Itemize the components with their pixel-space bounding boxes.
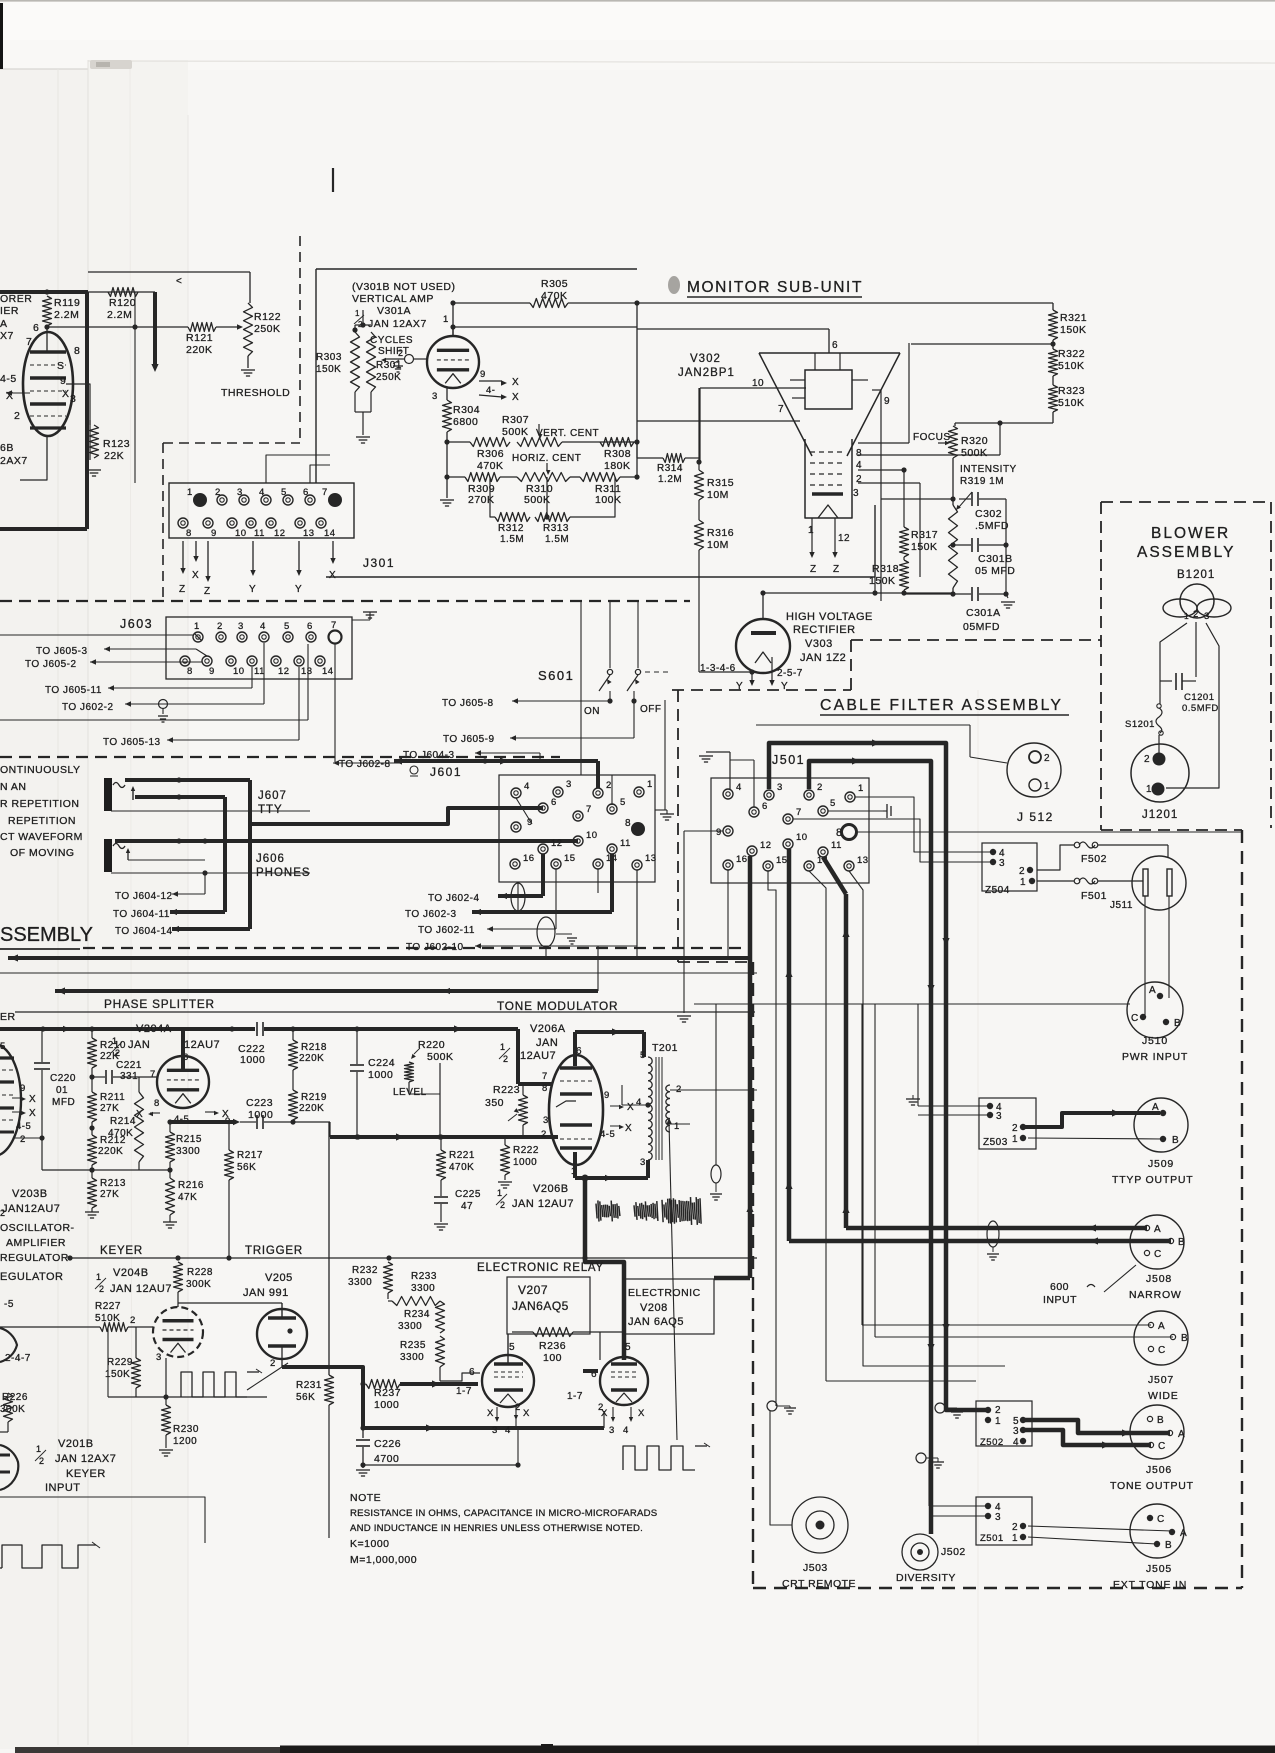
svg-text:12: 12 bbox=[838, 533, 850, 544]
svg-text:R211: R211 bbox=[100, 1092, 125, 1103]
svg-text:470K: 470K bbox=[449, 1162, 474, 1173]
svg-text:1: 1 bbox=[858, 783, 864, 794]
svg-text:470K: 470K bbox=[477, 460, 504, 472]
svg-text:510K: 510K bbox=[1058, 360, 1085, 372]
svg-text:8: 8 bbox=[856, 448, 862, 459]
svg-text:2: 2 bbox=[20, 1134, 26, 1145]
svg-text:9: 9 bbox=[211, 528, 217, 539]
svg-text:INPUT: INPUT bbox=[1043, 1294, 1077, 1306]
svg-text:ONTINUOUSLY: ONTINUOUSLY bbox=[0, 764, 81, 776]
svg-text:56K: 56K bbox=[237, 1162, 256, 1173]
svg-text:7: 7 bbox=[26, 336, 32, 348]
svg-text:R229: R229 bbox=[107, 1357, 133, 1368]
svg-text:RESISTANCE IN OHMS, CAPACITANC: RESISTANCE IN OHMS, CAPACITANCE IN MICRO… bbox=[350, 1508, 657, 1519]
svg-text:150K: 150K bbox=[911, 541, 938, 553]
svg-text:1: 1 bbox=[647, 779, 653, 790]
svg-text:M=1,000,000: M=1,000,000 bbox=[350, 1554, 417, 1566]
svg-text:3: 3 bbox=[640, 1157, 646, 1168]
svg-text:3: 3 bbox=[238, 621, 244, 632]
svg-text:2: 2 bbox=[817, 782, 823, 793]
svg-text:9: 9 bbox=[209, 666, 215, 677]
svg-text:TO J602-11: TO J602-11 bbox=[418, 925, 475, 936]
svg-text:4: 4 bbox=[636, 1097, 642, 1108]
svg-text:C224: C224 bbox=[368, 1057, 395, 1069]
svg-text:NOTE: NOTE bbox=[350, 1492, 381, 1504]
svg-text:10: 10 bbox=[586, 830, 598, 841]
svg-text:7: 7 bbox=[322, 487, 328, 498]
svg-text:9: 9 bbox=[60, 375, 66, 387]
svg-text:500K: 500K bbox=[502, 426, 529, 438]
svg-text:R216: R216 bbox=[178, 1180, 204, 1191]
svg-text:TO J602-4: TO J602-4 bbox=[428, 893, 480, 904]
svg-text:B: B bbox=[1174, 1018, 1181, 1029]
svg-text:HORIZ. CENT: HORIZ. CENT bbox=[512, 453, 581, 464]
svg-text:B: B bbox=[1181, 1333, 1188, 1344]
svg-text:J 512: J 512 bbox=[1017, 810, 1054, 824]
svg-text:Y: Y bbox=[295, 584, 302, 595]
svg-text:1: 1 bbox=[995, 1416, 1001, 1427]
svg-text:C225: C225 bbox=[455, 1189, 481, 1200]
svg-text:ORER: ORER bbox=[0, 293, 32, 305]
svg-text:15: 15 bbox=[776, 855, 788, 866]
svg-text:2: 2 bbox=[130, 1315, 136, 1326]
svg-text:TO J605-11: TO J605-11 bbox=[45, 685, 102, 696]
svg-text:B1201: B1201 bbox=[1177, 569, 1215, 581]
svg-text:1: 1 bbox=[500, 1042, 506, 1052]
svg-text:350: 350 bbox=[485, 1097, 504, 1109]
svg-text:R307: R307 bbox=[502, 414, 529, 426]
svg-text:.5MFD: .5MFD bbox=[975, 520, 1009, 532]
svg-text:4-5: 4-5 bbox=[16, 1121, 31, 1132]
svg-text:J502: J502 bbox=[941, 1546, 966, 1558]
svg-text:12: 12 bbox=[278, 666, 290, 677]
svg-text:1.2M: 1.2M bbox=[658, 474, 682, 485]
svg-text:4-5: 4-5 bbox=[600, 1129, 615, 1140]
svg-text:V206A: V206A bbox=[530, 1023, 566, 1035]
svg-text:R303: R303 bbox=[316, 352, 342, 363]
svg-text:2: 2 bbox=[1193, 609, 1199, 620]
svg-text:3: 3 bbox=[237, 487, 243, 498]
svg-text:TO J605-13: TO J605-13 bbox=[103, 737, 161, 748]
svg-text:C226: C226 bbox=[374, 1438, 401, 1450]
svg-text:Z503: Z503 bbox=[983, 1137, 1008, 1148]
svg-text:(V301B NOT USED): (V301B NOT USED) bbox=[352, 281, 456, 293]
svg-text:1: 1 bbox=[674, 1121, 680, 1132]
svg-text:8: 8 bbox=[542, 1083, 548, 1094]
svg-text:47: 47 bbox=[461, 1201, 473, 1212]
svg-text:1: 1 bbox=[187, 487, 193, 498]
svg-text:3: 3 bbox=[609, 1425, 615, 1436]
svg-text:331: 331 bbox=[120, 1071, 138, 1082]
svg-text:7: 7 bbox=[586, 804, 592, 815]
svg-text:12: 12 bbox=[274, 528, 286, 539]
svg-text:C221: C221 bbox=[116, 1060, 142, 1071]
svg-text:LEVEL: LEVEL bbox=[393, 1087, 427, 1098]
svg-text:B: B bbox=[1157, 1415, 1164, 1426]
svg-text:R317: R317 bbox=[911, 529, 938, 541]
svg-text:WIDE: WIDE bbox=[1148, 1390, 1179, 1402]
svg-text:300K: 300K bbox=[186, 1279, 211, 1290]
svg-text:4: 4 bbox=[1013, 1437, 1019, 1448]
svg-text:C302: C302 bbox=[975, 508, 1002, 520]
svg-text:TO J602-3: TO J602-3 bbox=[405, 909, 457, 920]
svg-text:Z: Z bbox=[179, 584, 186, 595]
svg-text:6: 6 bbox=[551, 797, 557, 808]
svg-text:R320: R320 bbox=[961, 435, 988, 447]
svg-text:V204B: V204B bbox=[113, 1267, 149, 1279]
svg-text:-5: -5 bbox=[4, 1299, 14, 1310]
svg-text:R318: R318 bbox=[872, 563, 899, 575]
svg-text:2: 2 bbox=[215, 487, 221, 498]
svg-text:8: 8 bbox=[186, 528, 192, 539]
svg-text:V201B: V201B bbox=[58, 1438, 94, 1450]
svg-text:10: 10 bbox=[233, 666, 245, 677]
svg-text:3: 3 bbox=[853, 488, 859, 499]
svg-text:8: 8 bbox=[74, 345, 80, 357]
svg-text:PHASE SPLITTER: PHASE SPLITTER bbox=[104, 997, 215, 1011]
svg-text:1.5M: 1.5M bbox=[545, 534, 569, 545]
svg-text:X: X bbox=[29, 1108, 36, 1119]
svg-text:1: 1 bbox=[1020, 877, 1026, 888]
svg-text:27K: 27K bbox=[100, 1103, 119, 1114]
svg-text:14: 14 bbox=[322, 666, 334, 677]
svg-text:EGULATOR: EGULATOR bbox=[0, 1271, 64, 1283]
svg-text:B: B bbox=[1178, 1237, 1185, 1248]
svg-text:16: 16 bbox=[736, 854, 748, 865]
svg-text:R316: R316 bbox=[707, 527, 734, 539]
svg-text:47K: 47K bbox=[178, 1192, 197, 1203]
svg-text:11: 11 bbox=[254, 666, 265, 677]
svg-text:KEYER: KEYER bbox=[100, 1245, 143, 1257]
svg-text:1: 1 bbox=[443, 314, 449, 325]
svg-text:JAN 991: JAN 991 bbox=[243, 1287, 289, 1299]
svg-text:6: 6 bbox=[762, 801, 768, 812]
svg-text:C223: C223 bbox=[246, 1097, 273, 1109]
svg-text:470K: 470K bbox=[541, 290, 568, 302]
svg-text:4: 4 bbox=[505, 1425, 511, 1436]
svg-text:V204A: V204A bbox=[136, 1023, 172, 1035]
svg-text:R222: R222 bbox=[513, 1145, 539, 1156]
svg-text:150K: 150K bbox=[869, 575, 896, 587]
svg-text:V207: V207 bbox=[518, 1283, 548, 1297]
svg-text:11: 11 bbox=[254, 528, 265, 539]
svg-text:4-: 4- bbox=[486, 385, 495, 396]
svg-text:500K: 500K bbox=[961, 447, 988, 459]
svg-text:B: B bbox=[1172, 1135, 1179, 1146]
svg-text:OFF: OFF bbox=[640, 704, 662, 715]
svg-text:2: 2 bbox=[541, 1129, 547, 1140]
svg-text:EXT TONE IN: EXT TONE IN bbox=[1113, 1579, 1187, 1591]
svg-text:R214: R214 bbox=[110, 1116, 136, 1127]
svg-text:12AU7: 12AU7 bbox=[520, 1050, 556, 1062]
svg-text:A: A bbox=[1149, 985, 1156, 996]
svg-text:220K: 220K bbox=[299, 1103, 324, 1114]
svg-text:R232: R232 bbox=[352, 1265, 378, 1276]
svg-text:1.5M: 1.5M bbox=[500, 534, 524, 545]
svg-text:JAN 12AX7: JAN 12AX7 bbox=[368, 318, 427, 330]
svg-text:Z: Z bbox=[833, 564, 840, 575]
svg-text:27K: 27K bbox=[100, 1189, 119, 1200]
svg-text:TO J605-8: TO J605-8 bbox=[442, 698, 494, 709]
svg-text:R122: R122 bbox=[254, 311, 281, 323]
svg-text:X: X bbox=[523, 1408, 530, 1419]
svg-text:1: 1 bbox=[1012, 1533, 1018, 1544]
svg-text:4: 4 bbox=[524, 781, 530, 792]
svg-text:V301A: V301A bbox=[377, 305, 411, 317]
svg-text:2: 2 bbox=[503, 1054, 509, 1064]
svg-text:15: 15 bbox=[564, 853, 576, 864]
svg-text:X: X bbox=[329, 570, 336, 581]
svg-text:INPUT: INPUT bbox=[45, 1482, 81, 1494]
svg-text:510K: 510K bbox=[1058, 397, 1085, 409]
svg-text:MFD: MFD bbox=[52, 1097, 75, 1108]
svg-text:TO J605-2: TO J605-2 bbox=[25, 659, 77, 670]
svg-text:9: 9 bbox=[20, 1083, 26, 1094]
svg-text:3300: 3300 bbox=[400, 1352, 424, 1363]
svg-text:C: C bbox=[1154, 1249, 1162, 1260]
svg-text:J601: J601 bbox=[430, 765, 462, 779]
svg-text:R233: R233 bbox=[411, 1271, 437, 1282]
svg-text:3: 3 bbox=[1013, 1426, 1019, 1437]
svg-text:AND INDUCTANCE IN HENRIES UNLE: AND INDUCTANCE IN HENRIES UNLESS OTHERWI… bbox=[350, 1523, 643, 1534]
svg-text:9: 9 bbox=[604, 1090, 610, 1101]
svg-text:5: 5 bbox=[281, 487, 287, 498]
svg-text:1: 1 bbox=[1012, 1134, 1018, 1145]
svg-text:9: 9 bbox=[527, 817, 533, 828]
svg-text:7: 7 bbox=[778, 404, 784, 415]
svg-text:R215: R215 bbox=[176, 1134, 202, 1145]
svg-text:CT WAVEFORM: CT WAVEFORM bbox=[0, 831, 83, 843]
svg-text:J501: J501 bbox=[772, 753, 805, 767]
svg-text:11: 11 bbox=[620, 838, 631, 849]
svg-text:JAN 12AX7: JAN 12AX7 bbox=[55, 1453, 116, 1465]
svg-text:13: 13 bbox=[301, 666, 313, 677]
svg-text:R223: R223 bbox=[493, 1084, 520, 1096]
svg-text:R234: R234 bbox=[404, 1309, 430, 1320]
svg-text:X: X bbox=[62, 388, 70, 400]
svg-text:CRT REMOTE: CRT REMOTE bbox=[782, 1578, 856, 1590]
svg-text:150K: 150K bbox=[105, 1369, 130, 1380]
svg-text:VERT. CENT: VERT. CENT bbox=[536, 428, 599, 439]
svg-text:TO J604-11: TO J604-11 bbox=[113, 909, 170, 920]
svg-text:56K: 56K bbox=[296, 1392, 315, 1403]
svg-text:R119: R119 bbox=[54, 297, 80, 309]
svg-text:10M: 10M bbox=[707, 539, 729, 551]
svg-text:250K: 250K bbox=[254, 323, 281, 335]
svg-text:R227: R227 bbox=[95, 1301, 121, 1312]
svg-text:1-7: 1-7 bbox=[567, 1391, 583, 1402]
svg-text:4: 4 bbox=[856, 460, 862, 471]
svg-text:ASSEMBLY: ASSEMBLY bbox=[1137, 544, 1235, 561]
svg-text:220K: 220K bbox=[98, 1146, 123, 1157]
svg-text:22K: 22K bbox=[104, 450, 124, 462]
svg-text:Z502: Z502 bbox=[980, 1437, 1004, 1448]
svg-text:R220: R220 bbox=[418, 1039, 445, 1051]
svg-text:R REPETITION: R REPETITION bbox=[0, 798, 80, 810]
svg-text:16: 16 bbox=[523, 853, 535, 864]
svg-text:JAN: JAN bbox=[536, 1037, 558, 1049]
svg-text:4-5: 4-5 bbox=[0, 373, 17, 385]
svg-text:Y: Y bbox=[249, 584, 256, 595]
svg-text:1000: 1000 bbox=[513, 1157, 537, 1168]
svg-text:4: 4 bbox=[736, 782, 742, 793]
svg-text:X: X bbox=[512, 377, 519, 388]
svg-text:500K: 500K bbox=[427, 1051, 454, 1063]
svg-text:JAN: JAN bbox=[128, 1039, 150, 1051]
svg-text:J503: J503 bbox=[803, 1562, 828, 1574]
svg-text:S1201: S1201 bbox=[1125, 719, 1155, 730]
svg-text:13: 13 bbox=[857, 855, 869, 866]
svg-text:1: 1 bbox=[96, 1272, 102, 1282]
svg-text:5: 5 bbox=[625, 1342, 631, 1353]
svg-text:DIVERSITY: DIVERSITY bbox=[896, 1572, 956, 1584]
svg-text:10M: 10M bbox=[707, 489, 729, 501]
svg-text:RECTIFIER: RECTIFIER bbox=[793, 624, 856, 636]
svg-text:R236: R236 bbox=[539, 1340, 566, 1352]
svg-text:8: 8 bbox=[154, 1098, 160, 1109]
svg-text:5: 5 bbox=[284, 621, 290, 632]
svg-text:6: 6 bbox=[832, 340, 838, 351]
svg-text:TTY: TTY bbox=[258, 804, 283, 816]
svg-text:R304: R304 bbox=[453, 404, 480, 416]
svg-text:J510: J510 bbox=[1142, 1035, 1168, 1047]
svg-text:N AN: N AN bbox=[0, 781, 27, 793]
svg-text:R235: R235 bbox=[400, 1340, 426, 1351]
svg-text:BLOWER: BLOWER bbox=[1151, 525, 1230, 542]
svg-text:R121: R121 bbox=[186, 332, 213, 344]
svg-text:510K: 510K bbox=[95, 1313, 120, 1324]
svg-text:R231: R231 bbox=[296, 1380, 322, 1391]
svg-text:J603: J603 bbox=[120, 617, 153, 631]
svg-text:01: 01 bbox=[56, 1085, 68, 1096]
svg-text:J1201: J1201 bbox=[1142, 809, 1178, 821]
svg-text:V206B: V206B bbox=[533, 1183, 569, 1195]
svg-text:100K: 100K bbox=[595, 494, 622, 506]
svg-text:A: A bbox=[1180, 1528, 1187, 1539]
svg-text:3: 3 bbox=[156, 1352, 162, 1363]
svg-text:C301A: C301A bbox=[966, 607, 1001, 619]
svg-text:100: 100 bbox=[543, 1352, 562, 1364]
svg-text:OF MOVING: OF MOVING bbox=[10, 847, 75, 859]
svg-text:1: 1 bbox=[808, 525, 814, 536]
svg-text:MONITOR SUB-UNIT: MONITOR SUB-UNIT bbox=[687, 279, 863, 296]
svg-text:3: 3 bbox=[995, 1512, 1001, 1523]
svg-text:0.5MFD: 0.5MFD bbox=[1182, 703, 1219, 714]
svg-text:AMPLIFIER: AMPLIFIER bbox=[6, 1237, 66, 1249]
svg-text:TO J602-8: TO J602-8 bbox=[339, 759, 391, 770]
svg-text:R228: R228 bbox=[187, 1267, 213, 1278]
svg-text:NARROW: NARROW bbox=[1129, 1289, 1182, 1301]
svg-text:C: C bbox=[1131, 1013, 1139, 1024]
svg-text:R120: R120 bbox=[109, 297, 136, 309]
svg-text:470K: 470K bbox=[108, 1128, 133, 1139]
svg-text:R323: R323 bbox=[1058, 385, 1085, 397]
svg-text:5: 5 bbox=[509, 1342, 515, 1353]
svg-text:2: 2 bbox=[217, 621, 223, 632]
svg-text:SSEMBLY: SSEMBLY bbox=[0, 924, 93, 946]
svg-text:R237: R237 bbox=[374, 1387, 401, 1399]
svg-text:V205: V205 bbox=[265, 1272, 293, 1284]
svg-text:7: 7 bbox=[542, 1071, 548, 1082]
svg-text:HIGH VOLTAGE: HIGH VOLTAGE bbox=[786, 611, 873, 623]
svg-text:JAN2BP1: JAN2BP1 bbox=[678, 367, 735, 379]
svg-text:TONE MODULATOR: TONE MODULATOR bbox=[497, 999, 618, 1013]
svg-text:Z: Z bbox=[204, 586, 211, 597]
svg-text:ELECTRONIC: ELECTRONIC bbox=[628, 1287, 701, 1299]
svg-text:1000: 1000 bbox=[374, 1399, 399, 1411]
svg-text:C: C bbox=[1158, 1441, 1166, 1452]
svg-text:A: A bbox=[1158, 1321, 1165, 1332]
svg-text:V203B: V203B bbox=[12, 1188, 48, 1200]
svg-text:13: 13 bbox=[303, 528, 315, 539]
svg-text:K=1000: K=1000 bbox=[350, 1538, 390, 1550]
svg-text:R218: R218 bbox=[301, 1042, 327, 1053]
svg-text:2AX7: 2AX7 bbox=[0, 455, 28, 467]
svg-text:1000: 1000 bbox=[240, 1054, 265, 1066]
svg-text:13: 13 bbox=[645, 853, 657, 864]
svg-text:2: 2 bbox=[398, 348, 404, 358]
svg-text:R219: R219 bbox=[301, 1092, 327, 1103]
svg-text:2: 2 bbox=[270, 1358, 276, 1369]
svg-text:R322: R322 bbox=[1058, 348, 1085, 360]
svg-text:FOCUS: FOCUS bbox=[913, 432, 951, 443]
svg-text:2.2M: 2.2M bbox=[54, 309, 79, 321]
svg-text:3: 3 bbox=[1204, 611, 1210, 622]
svg-text:6: 6 bbox=[33, 322, 39, 334]
svg-text:S: S bbox=[57, 360, 65, 372]
svg-text:3: 3 bbox=[432, 391, 438, 402]
svg-text:TONE OUTPUT: TONE OUTPUT bbox=[1110, 1480, 1194, 1492]
svg-text:3: 3 bbox=[777, 782, 783, 793]
svg-text:2: 2 bbox=[1012, 1123, 1018, 1134]
svg-text:180K: 180K bbox=[604, 460, 631, 472]
svg-text:INTENSITY: INTENSITY bbox=[960, 464, 1017, 475]
svg-text:2: 2 bbox=[39, 1456, 45, 1466]
svg-text:IER: IER bbox=[0, 305, 19, 317]
svg-text:J301: J301 bbox=[363, 556, 395, 570]
svg-text:1000: 1000 bbox=[248, 1109, 273, 1121]
svg-text:J606: J606 bbox=[256, 853, 285, 865]
svg-text:12: 12 bbox=[760, 840, 772, 851]
svg-text:PWR INPUT: PWR INPUT bbox=[1122, 1051, 1188, 1063]
svg-text:7: 7 bbox=[331, 620, 337, 631]
svg-text:12: 12 bbox=[551, 838, 563, 849]
svg-text:X: X bbox=[627, 1102, 634, 1113]
svg-text:V208: V208 bbox=[640, 1302, 668, 1314]
svg-text:C: C bbox=[1158, 1345, 1166, 1356]
svg-text:J507: J507 bbox=[1148, 1374, 1174, 1386]
svg-text:R217: R217 bbox=[237, 1150, 263, 1161]
svg-text:ON: ON bbox=[584, 706, 600, 717]
svg-text:CYCLES: CYCLES bbox=[370, 335, 413, 346]
svg-text:TO J605-9: TO J605-9 bbox=[443, 734, 495, 745]
svg-text:R230: R230 bbox=[173, 1424, 199, 1435]
svg-text:2: 2 bbox=[1144, 754, 1150, 765]
svg-text:2: 2 bbox=[1019, 866, 1025, 877]
svg-text:8: 8 bbox=[187, 666, 193, 677]
svg-text:6: 6 bbox=[303, 487, 309, 498]
svg-text:7: 7 bbox=[150, 1069, 156, 1080]
svg-text:TO J604-12: TO J604-12 bbox=[115, 891, 173, 902]
svg-text:F501: F501 bbox=[1081, 890, 1107, 902]
svg-text:1: 1 bbox=[194, 621, 200, 632]
svg-text:10: 10 bbox=[752, 378, 764, 389]
svg-text:6B: 6B bbox=[0, 442, 14, 454]
svg-text:JAN6AQ5: JAN6AQ5 bbox=[512, 1299, 569, 1313]
svg-text:3: 3 bbox=[996, 1111, 1002, 1122]
svg-text:220K: 220K bbox=[186, 344, 213, 356]
svg-text:22K: 22K bbox=[100, 1051, 119, 1062]
